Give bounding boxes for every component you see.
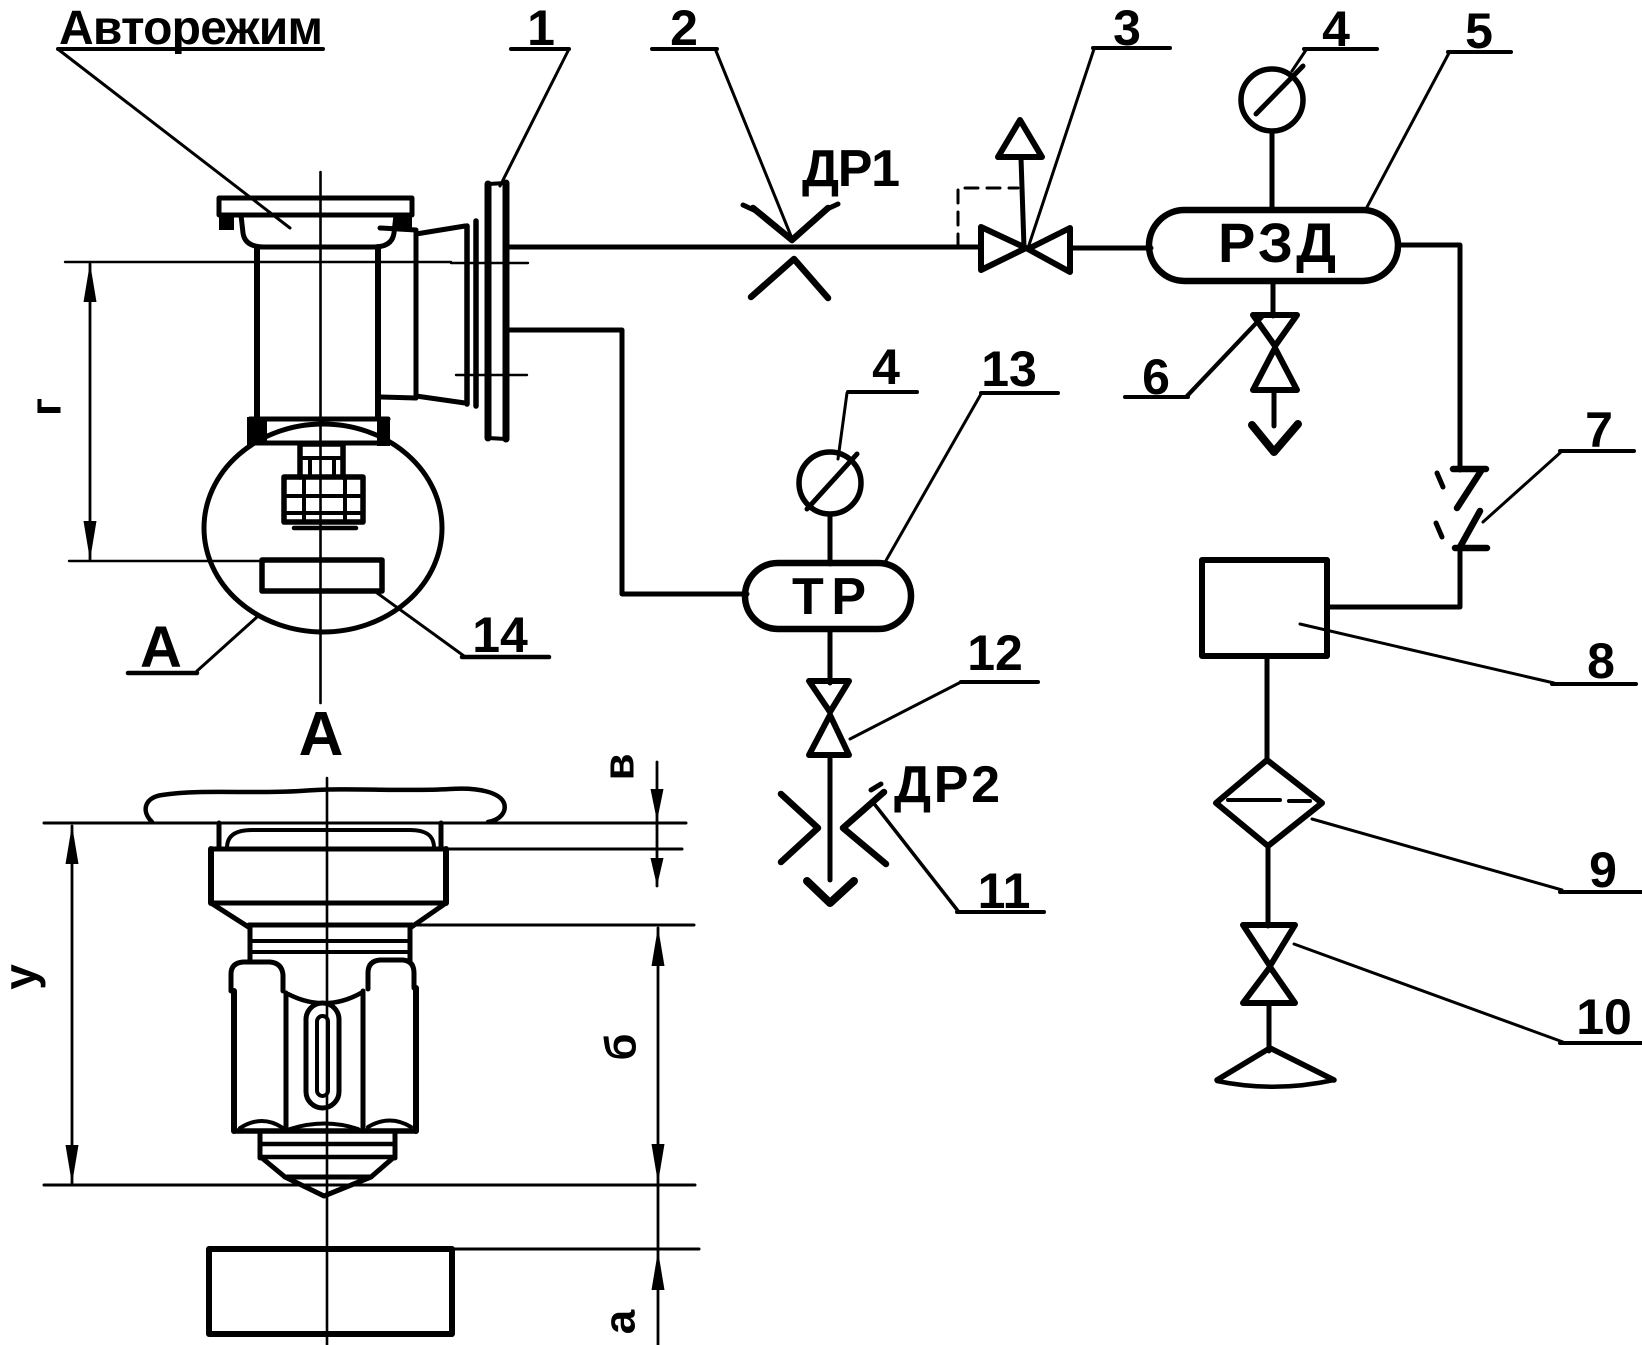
dimension v lines with arrows bbox=[651, 762, 664, 886]
gauge 4 (manometer over RZD) bbox=[1241, 66, 1303, 210]
svg-text:9: 9 bbox=[1589, 842, 1617, 898]
svg-text:а: а bbox=[596, 1309, 645, 1334]
valve 10 bbox=[1243, 925, 1295, 1003]
leader 4 bbox=[1292, 50, 1306, 71]
device side port neck bbox=[380, 228, 416, 398]
svg-text:12: 12 bbox=[967, 625, 1023, 681]
svg-text:в: в bbox=[595, 753, 644, 780]
label 12 with underline bbox=[961, 625, 1038, 682]
svg-text:10: 10 bbox=[1576, 989, 1632, 1045]
svg-text:б: б bbox=[597, 1033, 646, 1060]
drain arrow below DR2 bbox=[807, 881, 854, 903]
bottom section rectangle bbox=[209, 1249, 452, 1334]
svg-text:14: 14 bbox=[472, 607, 528, 663]
wire: RZD down to valve 6 bbox=[1271, 281, 1276, 316]
wire: coupling 7 down and left to box 8 bbox=[1327, 548, 1460, 607]
svg-text:ДР2: ДР2 bbox=[894, 756, 1000, 814]
svg-text:4: 4 bbox=[872, 339, 900, 395]
wire: device lower port to TR elbow bbox=[509, 330, 747, 594]
label 13 with underline bbox=[981, 341, 1058, 397]
label b (rotated) bbox=[597, 1033, 646, 1060]
label 7 with underline bbox=[1560, 402, 1634, 458]
device top flange plate bbox=[219, 198, 412, 230]
port centerline tick across plate bbox=[451, 262, 528, 264]
leader 12 bbox=[850, 682, 961, 739]
label g (rotated) bbox=[22, 398, 71, 416]
leader 7 bbox=[1483, 452, 1561, 522]
nut body bbox=[234, 988, 416, 1131]
title A bbox=[299, 700, 344, 769]
TR component oval bbox=[745, 563, 911, 629]
svg-text:ДР1: ДР1 bbox=[802, 140, 900, 198]
device sphere (ball chamber) bbox=[204, 424, 442, 632]
label 11 with underline bbox=[957, 863, 1044, 919]
leader 11 bbox=[872, 801, 958, 911]
nut block in sphere bbox=[284, 477, 363, 528]
gauge 4 (manometer over TR) bbox=[799, 452, 861, 564]
coupling 7 (detachable joint) bbox=[1436, 469, 1487, 548]
label 3 with underline bbox=[1093, 0, 1170, 56]
device cylinder body bbox=[257, 247, 378, 418]
nut slot bbox=[306, 1003, 339, 1108]
leader 10 bbox=[1294, 944, 1563, 1042]
dashed control box at valve 3 bbox=[958, 188, 1018, 247]
wavy mounting plate bbox=[146, 789, 505, 822]
device side cone adapter bbox=[416, 221, 476, 406]
dimension g extension line top bbox=[65, 261, 451, 263]
leader 4b bbox=[838, 393, 847, 459]
part 14 rectangle in sphere bbox=[262, 560, 382, 591]
filter 9 (diamond) bbox=[1216, 760, 1322, 846]
bolt shank in sphere bbox=[300, 444, 343, 477]
svg-text:А: А bbox=[299, 700, 344, 769]
wire: valve 10 down to drain funnel bbox=[1267, 1003, 1272, 1051]
fitting lower block bbox=[260, 1131, 395, 1158]
leader 2 bbox=[716, 51, 791, 236]
wire: TR down to valve 12 bbox=[828, 629, 833, 683]
label 9 with underline bbox=[1560, 842, 1642, 898]
fitting neck below plate bbox=[219, 823, 441, 848]
label 4 with underline bbox=[1304, 1, 1377, 57]
label 2 with underline bbox=[652, 0, 717, 56]
svg-text:у: у bbox=[0, 964, 46, 990]
fitting ring block bbox=[250, 928, 410, 962]
device sphere top band bbox=[247, 417, 390, 446]
label 10 with underline bbox=[1560, 989, 1642, 1045]
leader A bbox=[197, 617, 257, 671]
detail centerline bbox=[326, 778, 329, 1345]
wire: valve 3 to RZD bbox=[1070, 246, 1151, 251]
label 14 with underline bbox=[462, 607, 549, 663]
valve 3 (three-way with vent) bbox=[981, 120, 1070, 272]
valve 6 bbox=[1252, 315, 1298, 452]
dimension g line with arrows bbox=[84, 263, 97, 560]
taper shoulder line with extension bbox=[249, 923, 694, 928]
label 1 with underline bbox=[511, 0, 569, 56]
leader 8 bbox=[1300, 624, 1554, 683]
label 6 with underline bbox=[1125, 349, 1188, 405]
dimension u line with arrows bbox=[66, 825, 79, 1184]
throttle DR1 bbox=[743, 204, 838, 298]
leader 3 bbox=[1029, 49, 1094, 245]
label v (rotated) bbox=[595, 753, 644, 780]
label u (rotated) bbox=[0, 964, 46, 990]
box 8 (reservoir) bbox=[1202, 560, 1327, 656]
wire: RZD right and down to coupling 7 bbox=[1398, 245, 1460, 470]
fitting tip bbox=[262, 1158, 393, 1196]
leader 5 bbox=[1366, 53, 1449, 209]
fitting upper block bbox=[211, 849, 446, 903]
drain funnel bbox=[1217, 1048, 1334, 1087]
label Avtorezhim with underline bbox=[58, 2, 323, 55]
label 5 with underline bbox=[1448, 3, 1511, 59]
label 4b with underline bbox=[848, 339, 917, 395]
wire: filter 9 down to valve 10 bbox=[1266, 846, 1271, 926]
leader 13 bbox=[884, 394, 981, 564]
RZD component oval bbox=[1149, 210, 1398, 281]
leader 1 bbox=[500, 51, 568, 186]
leader 14 bbox=[373, 590, 464, 656]
flange underside line with extension bbox=[212, 847, 682, 852]
wire: valve 12 down through DR2 to drain bbox=[828, 755, 833, 880]
svg-text:8: 8 bbox=[1587, 633, 1615, 689]
valve 12 bbox=[809, 681, 849, 755]
nut chamfer ears bbox=[231, 960, 414, 991]
svg-text:г: г bbox=[22, 398, 71, 416]
svg-text:13: 13 bbox=[981, 341, 1037, 397]
throttle DR2 bbox=[781, 784, 886, 864]
surface line (upper reference) bbox=[44, 822, 686, 825]
svg-text:РЗД: РЗД bbox=[1218, 211, 1336, 274]
device collar bbox=[241, 215, 396, 247]
label A with underline (sphere view marker) bbox=[128, 615, 197, 680]
label 8 with underline bbox=[1552, 633, 1636, 689]
fitting taper bbox=[211, 903, 446, 928]
mounting plate (item 1) bbox=[488, 183, 506, 439]
device centerline bbox=[319, 172, 322, 703]
label a (rotated) bbox=[596, 1309, 645, 1334]
svg-text:А: А bbox=[140, 615, 182, 680]
leader 6 bbox=[1187, 317, 1262, 396]
label DR2 bbox=[894, 756, 1000, 814]
wire: box 8 down to filter 9 bbox=[1265, 656, 1270, 761]
rect top extension line bbox=[452, 1248, 699, 1251]
lower reference line bbox=[44, 1184, 695, 1187]
leader 9 bbox=[1312, 819, 1562, 890]
lower port centerline tick bbox=[456, 374, 527, 376]
wire: plate to valve 3 bbox=[507, 245, 981, 250]
leader Avtorezhim bbox=[59, 50, 290, 228]
dimension g extension line bottom bbox=[69, 560, 265, 562]
dimension b line with arrows bbox=[652, 927, 665, 1345]
label DR1 bbox=[802, 140, 900, 198]
